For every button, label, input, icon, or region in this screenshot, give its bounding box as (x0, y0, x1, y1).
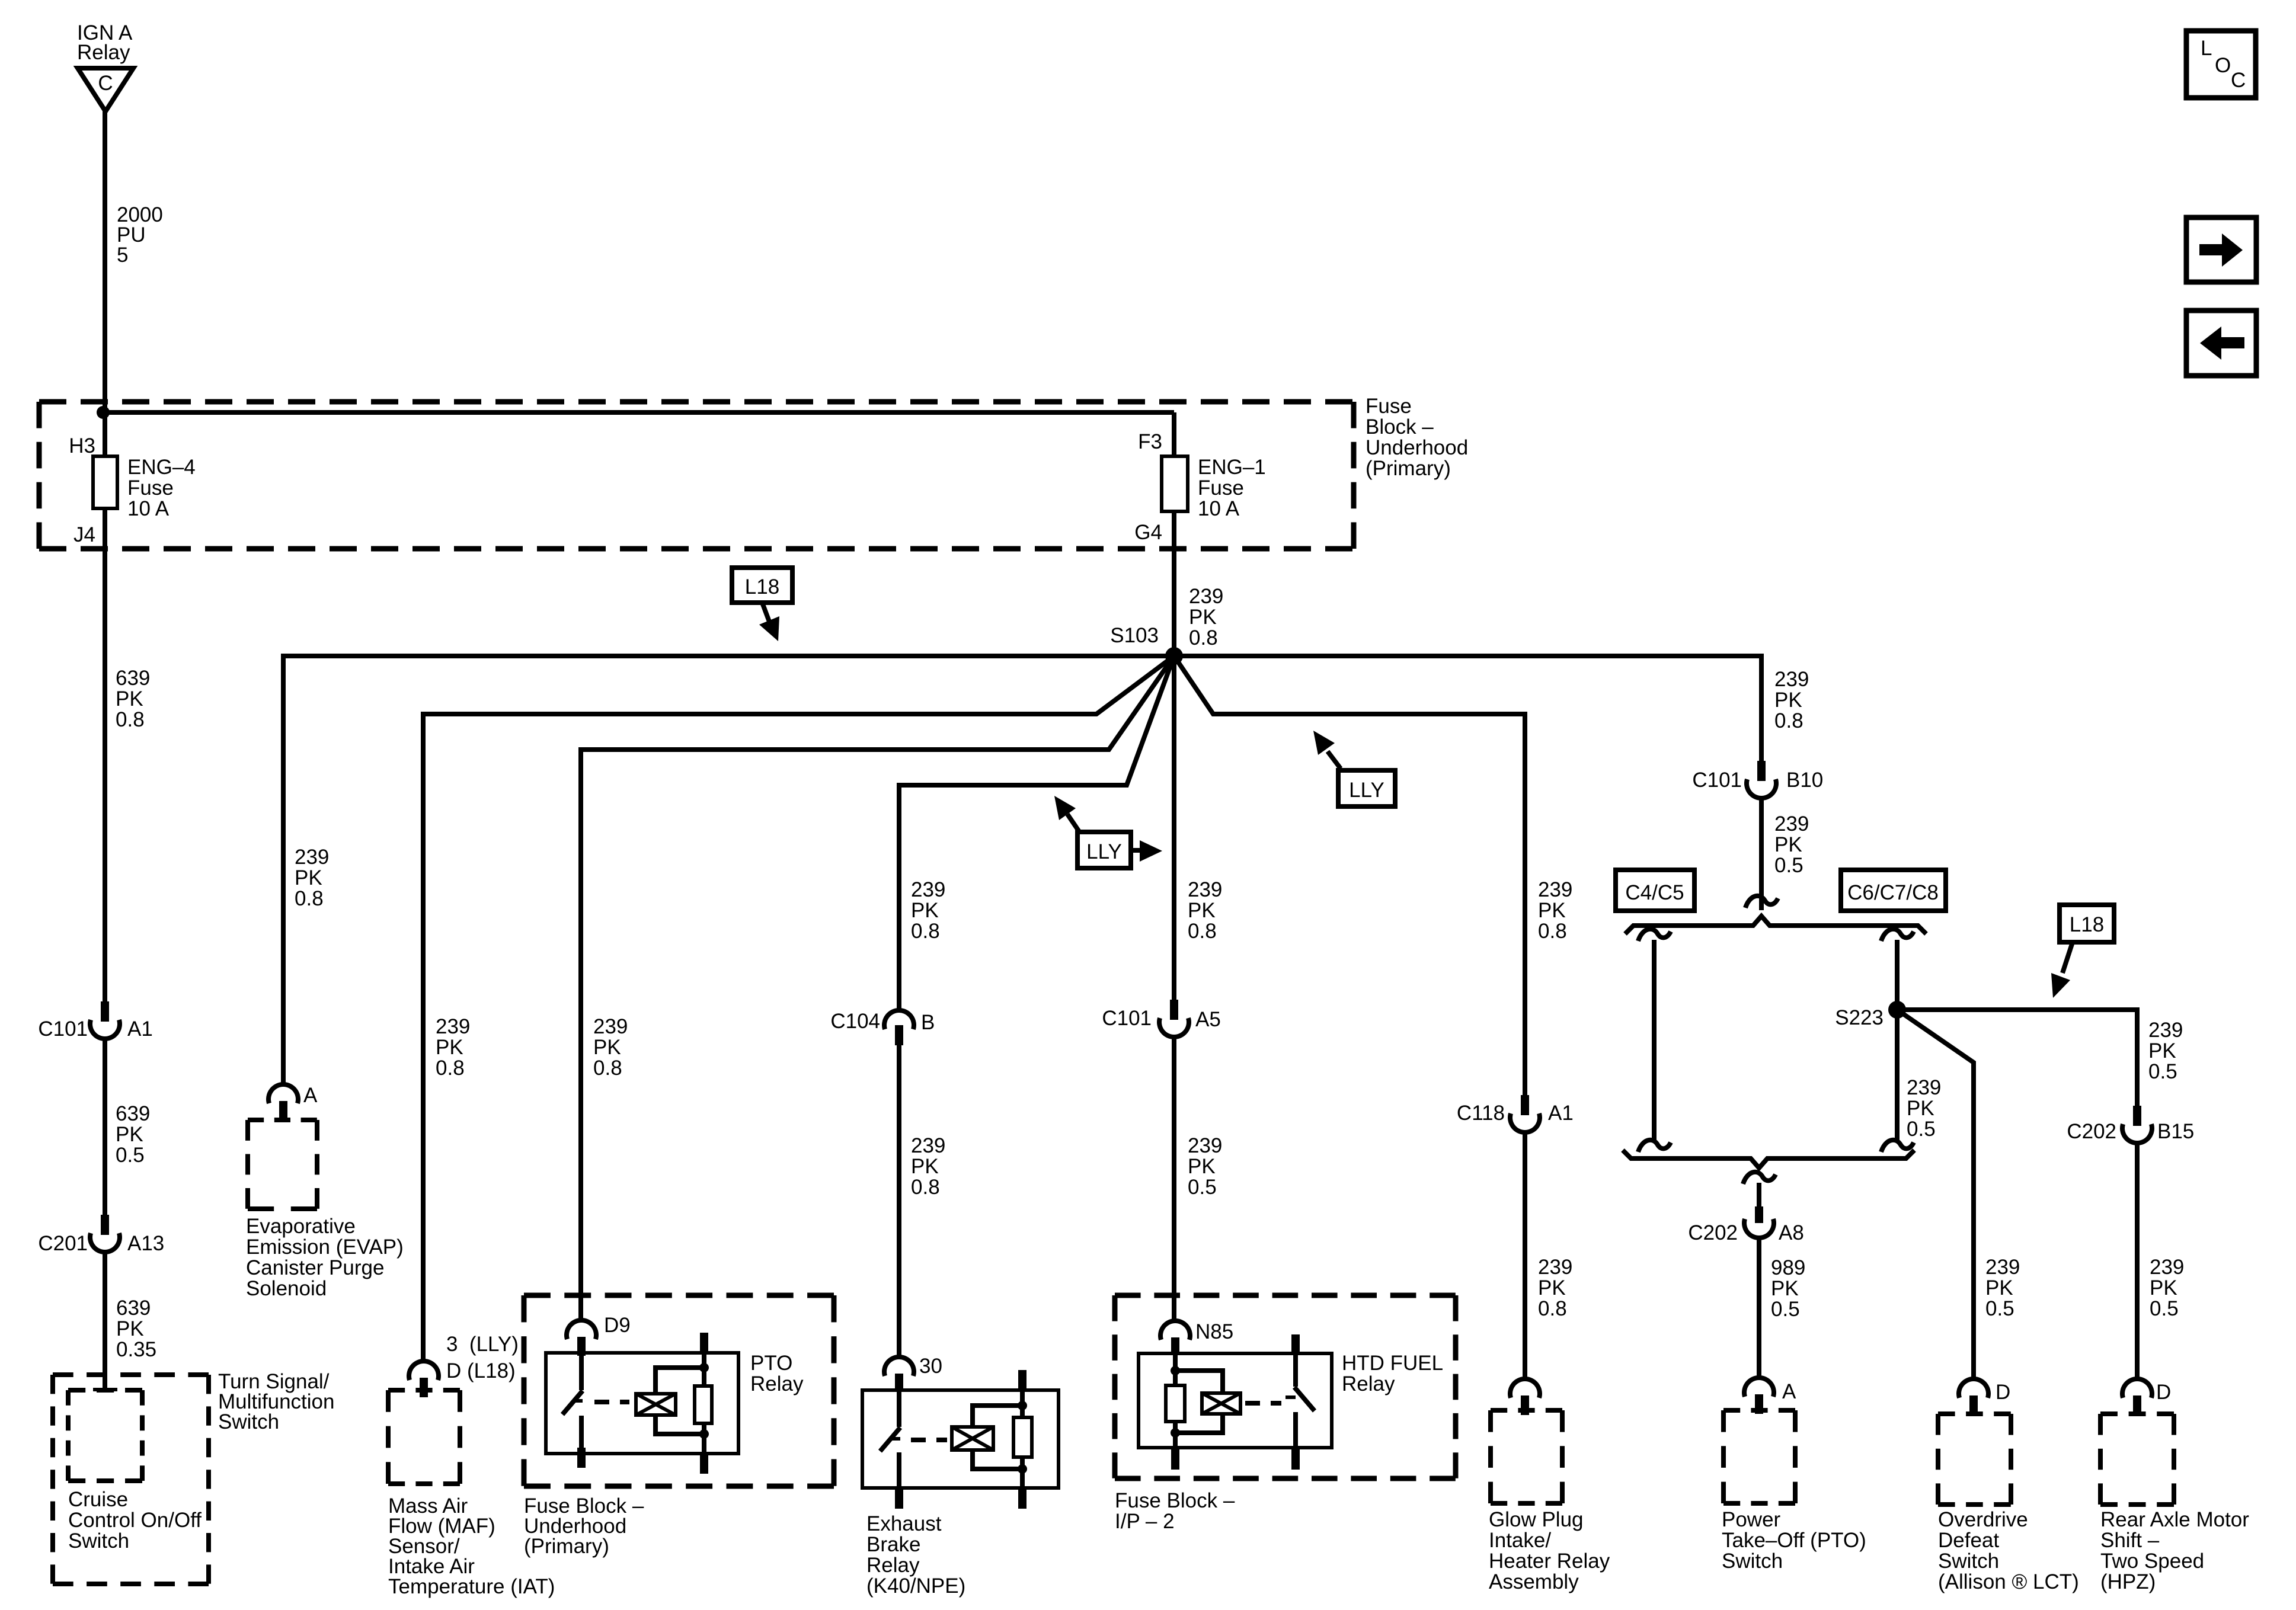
wire PTO relay branch (S103 diagonal + run) (581, 656, 1174, 1320)
svg-text:239: 239 (1774, 668, 1809, 691)
svg-text:C202: C202 (2067, 1120, 2116, 1143)
bus wire left/right of S103 (283, 654, 1761, 658)
svg-text:Relay: Relay (750, 1372, 804, 1395)
connector C101 pin A5 (1102, 1000, 1220, 1037)
svg-text:Switch: Switch (218, 1410, 279, 1433)
svg-text:30: 30 (919, 1355, 942, 1378)
wire label 239 PK 0.8 (exhaust) (911, 1134, 945, 1199)
wire label 239 PK 0.8 (PTO relay) (593, 1015, 628, 1080)
svg-text:239: 239 (1188, 878, 1222, 901)
wire MAF branch (S103 diagonal + run) (423, 656, 1174, 1361)
top brace (1625, 916, 1926, 934)
svg-text:PK: PK (1774, 833, 1802, 856)
svg-text:(K40/NPE): (K40/NPE) (866, 1574, 965, 1598)
connector A at EVAP solenoid (268, 1084, 318, 1121)
svg-text:F3: F3 (1138, 430, 1162, 453)
wire 2000 PU 5 (triangle to fuse block) (103, 110, 107, 415)
svg-text:N85: N85 (1195, 1320, 1233, 1343)
svg-text:O: O (2215, 54, 2231, 77)
svg-text:C6/C7/C8: C6/C7/C8 (1847, 881, 1939, 904)
svg-text:PK: PK (116, 1123, 143, 1146)
svg-text:0.8: 0.8 (1538, 1297, 1567, 1320)
svg-text:C101: C101 (38, 1017, 88, 1041)
svg-text:A: A (1782, 1380, 1796, 1403)
svg-text:0.8: 0.8 (295, 887, 324, 910)
svg-text:Fuse: Fuse (127, 476, 174, 500)
fuse ENG-4 10A (93, 456, 117, 508)
label fuse block underhood (primary) lower (524, 1494, 644, 1558)
svg-text:D (L18): D (L18) (446, 1359, 516, 1382)
label IGN A Relay (77, 21, 133, 64)
connector break symbol below bottom brace (1743, 1172, 1776, 1184)
glow plug intake/heater relay assembly dashed box (1491, 1410, 1562, 1503)
bottom brace (1623, 1150, 1914, 1168)
terminal tick at cruise switch (93, 1388, 117, 1391)
svg-text:Power: Power (1722, 1508, 1781, 1531)
svg-text:Cruise: Cruise (68, 1488, 128, 1511)
svg-text:239: 239 (1985, 1256, 2020, 1279)
fuse block underhood (primary) dashed box (39, 402, 1354, 549)
svg-text:PK: PK (1188, 899, 1216, 922)
wire label 239 PK 0.8 (glow upper) (1538, 878, 1572, 943)
wire C101 A5 to N85 (239 PK 0.5) (1172, 1038, 1176, 1321)
left alternate path wire (C4/C5) (1638, 929, 1671, 1152)
wire label 639 PK 0.5 (116, 1102, 150, 1167)
svg-text:S223: S223 (1835, 1006, 1884, 1029)
connector triangle terminal C (IGN A Relay) (78, 68, 133, 111)
svg-text:Shift –: Shift – (2100, 1529, 2160, 1552)
connector D at rear axle shift (2122, 1379, 2171, 1415)
fuse block label (1366, 395, 1468, 480)
svg-text:639: 639 (116, 1297, 151, 1320)
svg-text:PK: PK (1538, 899, 1566, 922)
EVAP canister purge solenoid dashed box (248, 1120, 317, 1209)
svg-text:239: 239 (2148, 1019, 2183, 1042)
svg-text:A5: A5 (1195, 1008, 1221, 1031)
harness label L18 boxed (right) (2060, 905, 2114, 942)
svg-text:Underhood: Underhood (1366, 436, 1468, 459)
wire label 239 PK 0.5 (rear axle) (2150, 1256, 2184, 1320)
svg-text:PTO: PTO (750, 1352, 792, 1375)
wire C101 to C201 (639 PK 0.5) (103, 1039, 107, 1215)
svg-text:A1: A1 (1548, 1102, 1574, 1125)
connector break symbol above brace (1745, 896, 1778, 908)
wire label 239 PK 0.8 (A5) (1188, 878, 1222, 943)
svg-text:0.5: 0.5 (1907, 1118, 1936, 1141)
label HTD FUEL Relay (1342, 1352, 1443, 1395)
svg-text:C104: C104 (830, 1010, 880, 1033)
svg-text:Evaporative: Evaporative (246, 1215, 356, 1238)
wire label 2000 PU 5 (117, 203, 163, 267)
connector D9 (567, 1314, 631, 1356)
svg-text:Canister Purge: Canister Purge (246, 1256, 384, 1279)
PTO relay box (546, 1353, 738, 1454)
svg-text:0.8: 0.8 (116, 708, 145, 731)
svg-text:PK: PK (911, 899, 939, 922)
svg-text:Take–Off (PTO): Take–Off (PTO) (1722, 1529, 1866, 1552)
svg-text:Fuse Block –: Fuse Block – (1115, 1489, 1235, 1512)
right alternate path wire (C6/C7/C8) (1881, 929, 1914, 1152)
svg-text:639: 639 (116, 667, 150, 690)
PTO switch dashed box (1723, 1410, 1795, 1503)
wire label 239 PK 0.8 (EVAP) (295, 846, 329, 910)
wire label 239 PK 0.5 (N85) (1188, 1134, 1222, 1199)
svg-text:5: 5 (117, 244, 128, 267)
svg-text:HTD FUEL: HTD FUEL (1342, 1352, 1443, 1375)
svg-text:0.8: 0.8 (1188, 920, 1217, 943)
svg-text:C202: C202 (1688, 1221, 1738, 1244)
label fuse block I/P-2 (1115, 1489, 1235, 1533)
fuse block underhood (PTO relay) dashed box (524, 1295, 834, 1486)
svg-text:10 A: 10 A (127, 497, 170, 520)
wire label 239 PK 0.8 (MAF) (436, 1015, 470, 1080)
svg-text:239: 239 (2150, 1256, 2184, 1279)
connector terminal 30 (884, 1355, 942, 1392)
connector C118 pin A1 (1457, 1095, 1574, 1132)
wire label 989 PK 0.5 (1771, 1256, 1805, 1321)
PTO relay actuator dashed line (594, 1400, 629, 1404)
svg-text:Two Speed: Two Speed (2100, 1550, 2204, 1573)
fuse ENG-1 10A (1162, 456, 1188, 511)
svg-text:239: 239 (911, 1134, 945, 1157)
connector C202 pin B15 (2067, 1106, 2194, 1143)
splice S223 (1835, 1001, 1906, 1029)
connector D at MAF sensor (409, 1361, 439, 1397)
right-arrow legend box (2186, 217, 2256, 282)
svg-text:C: C (2231, 69, 2246, 92)
svg-text:Glow Plug: Glow Plug (1489, 1508, 1584, 1531)
svg-text:239: 239 (295, 846, 329, 869)
wire S103 to C101 A5 (239 PK 0.8) (1172, 656, 1176, 1000)
svg-text:239: 239 (911, 878, 945, 901)
connector N85 (1160, 1320, 1233, 1355)
LOC legend box (2186, 31, 2256, 98)
wire S223 diagonal to overdrive defeat switch (1897, 1010, 1974, 1379)
connector A at PTO switch (1744, 1378, 1796, 1414)
svg-text:Switch: Switch (1722, 1550, 1783, 1573)
svg-text:Relay: Relay (1342, 1372, 1395, 1395)
svg-text:989: 989 (1771, 1256, 1805, 1279)
connector C101 pin B10 (1692, 761, 1823, 798)
label rear axle motor shift (2100, 1508, 2249, 1593)
connector D at overdrive defeat switch (1959, 1379, 2010, 1415)
svg-text:C: C (98, 72, 113, 95)
svg-text:B: B (921, 1011, 935, 1034)
svg-text:(Primary): (Primary) (524, 1535, 609, 1558)
svg-text:0.5: 0.5 (116, 1144, 145, 1167)
svg-text:D9: D9 (604, 1314, 631, 1337)
wire label 239 PK 0.8 (glow lower) (1538, 1256, 1572, 1320)
svg-text:Block –: Block – (1366, 415, 1434, 438)
svg-text:0.5: 0.5 (1985, 1297, 2014, 1320)
svg-text:ENG–1: ENG–1 (1198, 456, 1266, 479)
svg-text:C101: C101 (1102, 1007, 1152, 1030)
svg-text:639: 639 (116, 1102, 150, 1125)
svg-text:0.8: 0.8 (593, 1057, 622, 1080)
connector label box C4/C5 (1616, 870, 1694, 911)
svg-text:L18: L18 (2070, 913, 2104, 936)
label power take-off switch (1722, 1508, 1866, 1573)
wire label 239 PK 0.8 (G4-S103) (1189, 585, 1223, 649)
HTD relay switch (1285, 1355, 1315, 1449)
svg-text:0.5: 0.5 (2150, 1297, 2179, 1320)
svg-text:0.5: 0.5 (1188, 1176, 1217, 1199)
wire label 239 PK 0.8 (C104) (911, 878, 945, 943)
label turn signal/multifunction switch (218, 1370, 334, 1433)
svg-text:A1: A1 (127, 1017, 153, 1041)
svg-text:PK: PK (2148, 1039, 2176, 1062)
svg-text:Control On/Off: Control On/Off (68, 1509, 202, 1532)
svg-text:B10: B10 (1786, 769, 1823, 792)
PTO relay pins (577, 1333, 708, 1474)
wire C118 to glow plug assembly (239 PK 0.8) (1523, 1133, 1527, 1379)
wire label 239 PK 0.8 (B10) (1774, 668, 1809, 732)
svg-text:239: 239 (1188, 1134, 1222, 1157)
svg-text:PK: PK (116, 687, 143, 710)
svg-text:239: 239 (1907, 1076, 1941, 1099)
arrow L18 to S223 run (2051, 942, 2073, 998)
HTD relay pins (1171, 1334, 1300, 1470)
svg-text:10 A: 10 A (1198, 497, 1240, 520)
overdrive defeat switch dashed box (1938, 1414, 2011, 1505)
connector C104 pin B (830, 1010, 935, 1045)
svg-text:B15: B15 (2157, 1120, 2194, 1143)
label cruise control on/off switch (68, 1488, 202, 1553)
exhaust relay actuator dashed line (911, 1438, 947, 1442)
wire C104 to exhaust relay (239 PK 0.8) (897, 1044, 901, 1357)
svg-text:Switch: Switch (1938, 1550, 1999, 1573)
arrow LLY to vertical (1131, 840, 1162, 862)
svg-text:239: 239 (1538, 878, 1572, 901)
svg-text:H3: H3 (69, 434, 95, 457)
wire B15 to rear axle shift (239 PK 0.5) (2135, 1144, 2140, 1379)
svg-text:0.5: 0.5 (1771, 1298, 1800, 1321)
svg-text:(Allison ® LCT): (Allison ® LCT) (1938, 1570, 2079, 1593)
harness label L18 boxed (732, 568, 792, 603)
svg-text:PK: PK (1538, 1276, 1566, 1299)
svg-text:239: 239 (1538, 1256, 1572, 1279)
exhaust brake relay box (862, 1390, 1059, 1488)
svg-text:D: D (2156, 1381, 2171, 1404)
connector C202 pin A8 (1688, 1206, 1803, 1244)
HTD relay coil (1175, 1371, 1240, 1433)
label EVAP solenoid (246, 1215, 404, 1300)
svg-text:I/P – 2: I/P – 2 (1115, 1510, 1175, 1533)
svg-text:239: 239 (593, 1015, 628, 1038)
svg-text:Relay: Relay (866, 1554, 920, 1577)
svg-text:0.5: 0.5 (1774, 854, 1803, 877)
svg-text:0.8: 0.8 (1774, 709, 1803, 732)
svg-text:0.8: 0.8 (911, 1176, 940, 1199)
svg-text:L18: L18 (745, 575, 779, 598)
HTD relay resistor (1166, 1355, 1185, 1449)
svg-text:C4/C5: C4/C5 (1625, 881, 1684, 904)
svg-text:PK: PK (1985, 1276, 2013, 1299)
harness label LLY boxed (with arrows) (1077, 832, 1131, 868)
junction at H3 feed (97, 406, 110, 419)
arrow from L18 to bus (759, 603, 779, 641)
wire glow plug branch (S103 diagonal + run) (1174, 656, 1525, 1095)
svg-text:LLY: LLY (1349, 779, 1384, 802)
wire label 239 PK 0.5 (S223 down) (1907, 1076, 1941, 1141)
PTO relay resistor (695, 1354, 712, 1454)
wire H3 to fuse ENG-4 (103, 412, 107, 457)
svg-text:C201: C201 (38, 1232, 88, 1255)
connector C201 pin A13 (38, 1215, 164, 1255)
fuse ENG-4 label (127, 456, 196, 520)
connector at glow plug assembly (1510, 1379, 1540, 1415)
svg-text:S103: S103 (1110, 624, 1159, 647)
svg-text:239: 239 (1774, 812, 1809, 836)
rear axle motor shift dashed box (2100, 1414, 2174, 1505)
svg-text:(Primary): (Primary) (1366, 457, 1451, 480)
cruise control on/off switch dashed box (outer) (53, 1375, 209, 1584)
svg-text:239: 239 (436, 1015, 470, 1038)
wire label 239 PK 0.5 (B10 lower) (1774, 812, 1809, 877)
wire internal bus H3 to F3 (103, 410, 1174, 415)
svg-text:A: A (303, 1084, 318, 1107)
label exhaust brake relay (866, 1512, 965, 1598)
MAF sensor dashed box (388, 1390, 460, 1484)
svg-text:(HPZ): (HPZ) (2100, 1570, 2156, 1593)
svg-text:A13: A13 (127, 1232, 164, 1255)
wire exhaust brake branch (S103 diagonal + run, 239 PK 0.8) (899, 656, 1174, 1010)
svg-text:Heater Relay: Heater Relay (1489, 1550, 1610, 1573)
svg-text:PK: PK (1774, 689, 1802, 712)
fuse block I/P-2 dashed box (1115, 1295, 1456, 1478)
wire A8 to PTO switch (989 PK 0.5) (1757, 1238, 1761, 1378)
svg-text:Intake/: Intake/ (1489, 1529, 1551, 1552)
wire S223 to C202 B15 (1897, 1010, 2137, 1106)
svg-text:Defeat: Defeat (1938, 1529, 1999, 1552)
wire label 639 PK 0.35 (116, 1297, 156, 1361)
svg-text:PK: PK (1189, 606, 1217, 629)
svg-text:239: 239 (1189, 585, 1223, 608)
svg-text:Assembly: Assembly (1489, 1570, 1579, 1593)
svg-text:0.8: 0.8 (911, 920, 940, 943)
wire G4 to S103 (239 PK 0.8) (1172, 511, 1176, 656)
wire B10 to connector group (239 PK 0.5) (1759, 799, 1764, 910)
HTD FUEL relay box (1139, 1353, 1332, 1448)
svg-text:Switch: Switch (68, 1529, 129, 1553)
splice S103 (1110, 624, 1183, 665)
svg-text:0.8: 0.8 (1189, 626, 1218, 649)
fuse ENG-1 label (1198, 456, 1266, 520)
pin label 3 (LLY) / D (L18) (446, 1333, 519, 1382)
svg-text:Fuse: Fuse (1198, 476, 1244, 500)
svg-text:Relay: Relay (77, 41, 130, 64)
svg-text:PK: PK (116, 1317, 144, 1340)
wire F3 drop (1172, 412, 1176, 457)
label glow plug assembly (1489, 1508, 1610, 1593)
exhaust relay pins (895, 1370, 1027, 1509)
svg-text:0.8: 0.8 (1538, 920, 1567, 943)
label overdrive defeat switch (1938, 1508, 2079, 1593)
svg-text:Rear Axle Motor: Rear Axle Motor (2100, 1508, 2249, 1531)
svg-text:PK: PK (2150, 1276, 2177, 1299)
svg-text:LLY: LLY (1086, 840, 1122, 863)
svg-text:G4: G4 (1134, 521, 1162, 544)
connector C101 pin A1 (38, 1001, 152, 1041)
connector label box C6/C7/C8 (1841, 870, 1946, 911)
svg-text:0.8: 0.8 (436, 1057, 465, 1080)
left-arrow legend box (2186, 311, 2256, 376)
svg-text:ENG–4: ENG–4 (127, 456, 196, 479)
svg-text:Exhaust: Exhaust (866, 1512, 942, 1535)
HTD relay actuator dashed line (1245, 1401, 1281, 1406)
svg-text:Overdrive: Overdrive (1938, 1508, 2028, 1531)
svg-text:PK: PK (911, 1155, 939, 1178)
arrow LLY to diagonal (1054, 796, 1080, 833)
svg-text:Fuse: Fuse (1366, 395, 1412, 418)
svg-text:PK: PK (1907, 1097, 1934, 1120)
label PTO Relay (750, 1352, 804, 1395)
svg-text:D: D (1996, 1381, 2010, 1404)
harness label LLY boxed (right) (1338, 770, 1395, 806)
wire label 239 PK 0.5 (B15 upper) (2148, 1019, 2183, 1083)
exhaust relay switch (880, 1391, 900, 1489)
wire label 639 PK 0.8 (116, 667, 150, 731)
svg-text:PK: PK (1771, 1277, 1799, 1300)
cruise control inner dashed box (68, 1390, 142, 1481)
svg-text:J4: J4 (73, 523, 95, 546)
exhaust relay resistor (1013, 1390, 1032, 1489)
svg-text:Temperature (IAT): Temperature (IAT) (388, 1575, 555, 1598)
svg-text:L: L (2201, 37, 2212, 60)
svg-text:0.5: 0.5 (2148, 1060, 2177, 1083)
svg-text:PK: PK (593, 1036, 621, 1059)
svg-text:C101: C101 (1692, 769, 1742, 792)
wire label 239 PK 0.5 (overdrive) (1985, 1256, 2020, 1320)
wire bus right corner down to C101 B10 (239 PK 0.8) (1759, 654, 1764, 761)
svg-text:PK: PK (436, 1036, 463, 1059)
arrow LLY right to glow run (1313, 731, 1341, 769)
svg-text:0.35: 0.35 (116, 1338, 156, 1361)
PTO relay coil (636, 1368, 704, 1434)
svg-text:Emission (EVAP): Emission (EVAP) (246, 1235, 404, 1259)
svg-text:Brake: Brake (866, 1533, 920, 1556)
wire C201 to cruise switch (639 PK 0.35) (103, 1253, 107, 1390)
label MAF sensor (388, 1494, 555, 1598)
svg-text:A8: A8 (1779, 1221, 1804, 1244)
wire EVAP branch vertical (239 PK 0.8) (281, 654, 286, 1084)
svg-text:C118: C118 (1457, 1102, 1505, 1125)
svg-text:Solenoid: Solenoid (246, 1277, 327, 1300)
svg-text:PK: PK (1188, 1155, 1216, 1178)
wire brace to C202 A8 (1757, 1183, 1761, 1206)
PTO relay switch (562, 1354, 583, 1449)
svg-text:3 (LLY): 3 (LLY) (446, 1333, 519, 1356)
wire J4 to C101 A1 (639 PK 0.8) (103, 508, 107, 1001)
exhaust relay coil (952, 1406, 1022, 1469)
svg-text:PK: PK (295, 866, 322, 889)
